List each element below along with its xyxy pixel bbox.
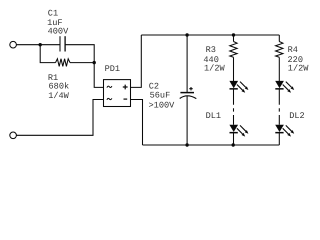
LED DL2b triangle xyxy=(275,125,284,132)
capacitor C2 bottom arc plate xyxy=(180,96,197,99)
wire node A down to R1 xyxy=(40,45,55,63)
wire R3 to LED DL1a xyxy=(233,57,235,81)
svg-text:>100V: >100V xyxy=(149,100,176,110)
resistor R4 zigzag xyxy=(276,42,283,58)
C2 plus polarity mark xyxy=(189,87,192,90)
junction dot C2 top xyxy=(185,33,188,36)
wire R3 branch top xyxy=(233,35,235,42)
wire C2 branch bottom xyxy=(186,96,188,145)
svg-text:1/4W: 1/4W xyxy=(48,91,69,101)
svg-text:400V: 400V xyxy=(48,26,69,36)
wire top input to node A xyxy=(16,44,60,46)
PD1 tilde AC mark top xyxy=(107,86,112,88)
terminal J1 top input xyxy=(10,41,17,48)
PD1 plus mark xyxy=(123,85,128,90)
LED DL1b emission arrow 1 xyxy=(240,125,246,131)
capacitor C2 top plate xyxy=(180,92,194,94)
wire R4 branch top xyxy=(278,35,280,42)
wire PD1 - output to bottom rail xyxy=(131,100,143,146)
wire C1 right plate to corner down to PD1 xyxy=(65,45,103,88)
capacitor C1 left plate xyxy=(59,36,61,51)
svg-text:680k: 680k xyxy=(49,82,70,92)
svg-text:1/2W: 1/2W xyxy=(204,64,225,74)
wire R1 right to node B xyxy=(70,62,94,64)
svg-text:R4: R4 xyxy=(288,45,298,55)
LED DL2b cathode bar xyxy=(275,132,283,134)
wire R4 to LED DL2a xyxy=(278,57,280,81)
LED DL1b triangle xyxy=(229,125,238,132)
capacitor C1 right plate xyxy=(64,36,66,51)
wire DL1 bottom to rail xyxy=(233,133,235,145)
junction dot C2 bottom xyxy=(185,143,188,146)
terminal J2 bottom input xyxy=(10,132,17,139)
LED DL2a emission arrow 2 xyxy=(283,85,289,91)
resistor R3 zigzag xyxy=(230,42,237,58)
LED DL1a emission arrow 2 xyxy=(237,85,243,91)
svg-text:R3: R3 xyxy=(206,45,216,55)
resistor R1 zigzag xyxy=(56,59,71,67)
LED DL2b emission arrow 2 xyxy=(283,128,289,134)
wire DL2 bottom to rail xyxy=(278,133,280,145)
LED DL2a cathode bar xyxy=(275,88,283,90)
PD1 minus mark xyxy=(124,98,128,100)
LED DL1a cathode bar xyxy=(230,88,238,90)
wire bottom rail xyxy=(143,144,280,146)
svg-text:PD1: PD1 xyxy=(105,64,120,74)
LED DL1b cathode bar xyxy=(230,132,238,134)
node B junction dot xyxy=(93,61,96,64)
junction dot DL1 bottom xyxy=(232,143,235,146)
svg-text:1/2W: 1/2W xyxy=(288,64,309,74)
node A junction dot xyxy=(39,43,42,46)
svg-text:DL2: DL2 xyxy=(289,111,304,121)
LED DL1a emission arrow 1 xyxy=(240,82,246,88)
wire DL2 internal with dashed break xyxy=(278,89,280,125)
wire bottom input to PD1 xyxy=(16,100,103,136)
svg-text:DL1: DL1 xyxy=(206,111,221,121)
rectifier PD1 box xyxy=(104,80,131,107)
PD1 tilde AC mark bottom xyxy=(107,98,112,100)
junction dot R3 top xyxy=(232,33,235,36)
wire DL1 internal with dashed break xyxy=(233,89,235,125)
LED DL1b emission arrow 2 xyxy=(237,128,243,134)
wire C2 branch top xyxy=(186,35,188,92)
LED DL2a emission arrow 1 xyxy=(286,82,292,88)
LED DL1a triangle xyxy=(229,81,238,88)
LED DL2b emission arrow 1 xyxy=(286,125,292,131)
wire PD1 + output to top rail xyxy=(131,35,142,87)
LED DL2a triangle xyxy=(275,81,284,88)
svg-text:56uF: 56uF xyxy=(150,91,171,101)
wire top rail xyxy=(141,34,279,36)
